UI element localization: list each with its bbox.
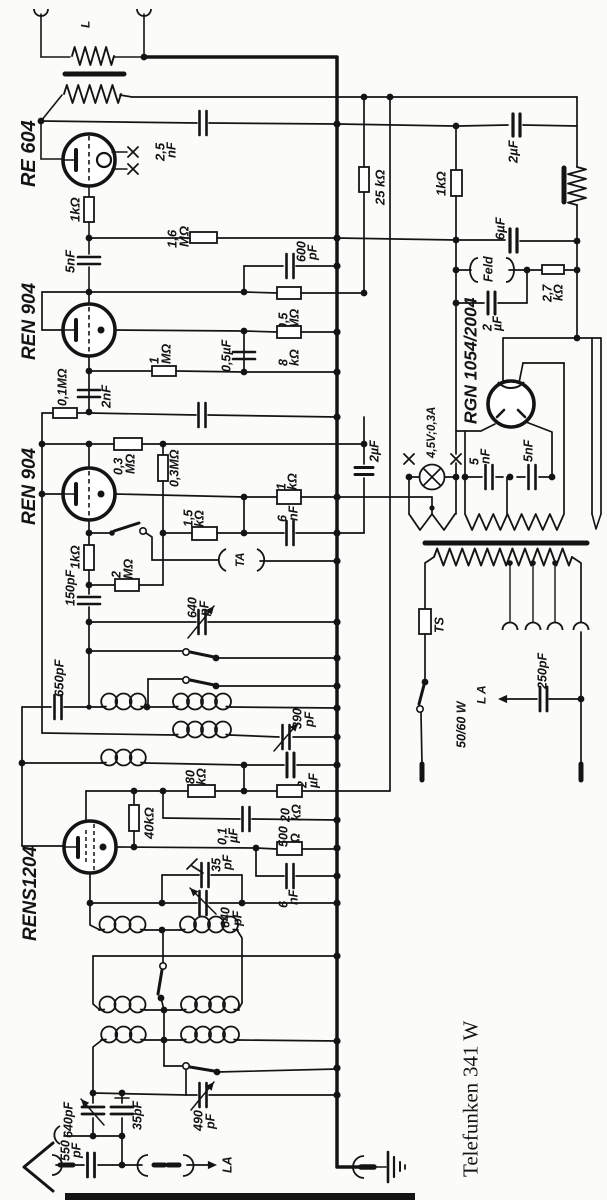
capacitor 640pF (antenna) [92, 1093, 94, 1103]
svg-text:25 kΩ: 25 kΩ [373, 170, 388, 206]
wave switch row A [88, 622, 90, 651]
resistor 25k [363, 97, 365, 167]
svg-text:MΩ: MΩ [177, 226, 192, 247]
speaker terminal hook 1 [34, 9, 48, 16]
wire cathode line [115, 330, 244, 331]
resistor 500 [256, 848, 277, 849]
wire grid-leak line py444 [41, 413, 43, 444]
capacitor 2uF (output) [459, 125, 508, 126]
wire - main chassis/ground bus [144, 57, 359, 1167]
filament winding HV [465, 514, 564, 530]
wire [455, 241, 457, 270]
svg-text:2nF: 2nF [99, 384, 114, 409]
svg-text:150pF: 150pF [64, 570, 78, 606]
svg-text:TS: TS [433, 616, 447, 633]
svg-text:REN 904: REN 904 [19, 447, 40, 525]
svg-text:2µF: 2µF [368, 440, 382, 463]
resistor 80k [188, 785, 215, 797]
capacitor 5nF pair [465, 476, 482, 478]
svg-text:pF: pF [221, 854, 235, 871]
wire anode stub 2 [88, 444, 90, 468]
svg-text:L A: L A [474, 685, 488, 704]
capacitor 2uF (AVC) [244, 764, 284, 766]
resistor 0,3M (top) [114, 438, 142, 450]
svg-text:1kΩ: 1kΩ [68, 197, 83, 222]
svg-text:341 W: 341 W [459, 1021, 483, 1077]
wave switch row B [147, 679, 149, 707]
svg-text:650pF: 650pF [52, 658, 67, 697]
antenna coil row (py1040) [93, 1040, 102, 1093]
ground symbol [353, 1156, 364, 1178]
mains pin right [579, 764, 584, 780]
svg-text:µF: µF [227, 828, 241, 844]
svg-text:pF: pF [70, 1142, 84, 1159]
wire lamp tap to bus [337, 496, 432, 498]
svg-text:0,3MΩ: 0,3MΩ [168, 449, 182, 487]
resistor 0,1M [77, 412, 89, 414]
tube REN904 (1) [63, 304, 115, 356]
wire [576, 205, 578, 241]
svg-text:pF: pF [303, 711, 317, 728]
resistor 1k (cathode 2) [88, 533, 90, 545]
pickup jack TA [219, 549, 226, 571]
svg-text:kΩ: kΩ [195, 768, 209, 785]
resistor 1,5k [163, 532, 192, 534]
RE604 heater leads [112, 151, 127, 153]
wire py124 right of bus [337, 124, 453, 126]
power transformer primary [434, 549, 572, 566]
loudspeaker magnet bar [562, 168, 567, 202]
mains switch [419, 685, 424, 704]
wire speaker right drop [576, 97, 578, 167]
svg-text:pF: pF [198, 600, 212, 617]
IF coil pair (row 1) [89, 706, 102, 708]
capacitor 5nF (RE604 coupling) [78, 256, 100, 259]
wire speaker to winding [41, 56, 70, 58]
wire px244 [243, 497, 245, 533]
capacitor 0,1uF [160, 788, 167, 795]
output transformer core [65, 72, 124, 77]
svg-text:kΩ: kΩ [290, 804, 304, 821]
svg-text:kΩ: kΩ [288, 349, 302, 366]
tube RENS1204 [64, 821, 116, 873]
speaker terminal hook 2 [137, 9, 151, 16]
loudspeaker voice coil [568, 167, 586, 205]
svg-text:nF: nF [479, 448, 493, 464]
resistor 1k (py497) [244, 496, 277, 498]
svg-text:MΩ: MΩ [160, 344, 174, 364]
band switch (antenna) [162, 930, 164, 962]
svg-text:Ω: Ω [289, 833, 303, 844]
capacitor 6uF line py240 [337, 238, 456, 240]
RGN filament leads [456, 424, 495, 431]
capacitor 6nF (2) [255, 848, 257, 876]
wire mains left + fuse TS [425, 557, 434, 609]
dial winding [408, 477, 410, 514]
wire py791 screen feed [86, 790, 188, 792]
svg-text:MΩ: MΩ [124, 454, 138, 474]
scan edge band [65, 1193, 415, 1200]
voltage taps [507, 560, 513, 566]
svg-text:0,1MΩ: 0,1MΩ [56, 368, 70, 406]
resistor 1k (RE604 cathode) [88, 186, 90, 197]
resistor 1M [88, 356, 90, 371]
capacitor 600pF [243, 266, 245, 292]
svg-text:L: L [78, 21, 92, 28]
svg-text:nF: nF [164, 141, 179, 158]
resistor 2,7k [527, 269, 542, 271]
wire grid2 entry [85, 791, 87, 822]
svg-text:REN 904: REN 904 [19, 282, 40, 360]
capacitor 390pF trimmer [281, 725, 284, 749]
capacitor 640pF trimmer (py622) [89, 621, 196, 623]
svg-text:TA: TA [235, 553, 247, 567]
capacitor 490pF trimmer [185, 1070, 187, 1095]
svg-text:LA: LA [221, 1156, 235, 1173]
coil row 2 (py735) [42, 733, 174, 735]
svg-text:5nF: 5nF [522, 439, 536, 462]
svg-text:pF: pF [204, 1113, 218, 1130]
wire px163 + resistor 0,3M (vert) [162, 444, 164, 455]
wire anode stub [88, 292, 90, 304]
wire mains right [572, 557, 581, 622]
svg-text:640pF: 640pF [62, 1102, 76, 1138]
antenna coil row (py1010) [93, 956, 100, 1010]
wire py533 to 2uF [337, 532, 364, 534]
wire px244 (765-791) [243, 765, 245, 791]
output transformer primary winding [64, 85, 121, 103]
resistor 2M [89, 584, 115, 586]
resistor 1k (right, py170) [455, 126, 457, 170]
svg-text:Telefunken: Telefunken [459, 1082, 483, 1177]
antenna coil row (py930) [90, 903, 100, 930]
tube RGN1054 [488, 381, 534, 427]
wire grid to tube [41, 292, 43, 330]
wire cathode RENS [116, 847, 256, 848]
svg-text:kΩ: kΩ [193, 510, 207, 527]
grid switch (pickup) [88, 520, 90, 533]
capacitor 2nF [88, 371, 90, 411]
capacitor 6nF [244, 532, 284, 534]
capacitor 35pF (antenna) [121, 1093, 123, 1103]
svg-text:50/60 W: 50/60 W [455, 700, 469, 748]
pilot lamp 4,5V 0,3A [409, 476, 455, 478]
capacitor 0,5uF [243, 331, 245, 372]
resistor 0,5M [244, 292, 277, 293]
wire grid feed RE604 [38, 118, 45, 125]
field coil Feld [456, 269, 471, 271]
svg-text:Feld: Feld [482, 256, 496, 282]
svg-text:5nF: 5nF [63, 249, 78, 273]
capacitor 640pF trimmer (py903) [89, 873, 91, 903]
resistor 8k [244, 331, 277, 332]
capacitor (py415 line) [89, 413, 196, 415]
wire B+ rail px390 [389, 97, 391, 791]
svg-text:nF: nF [287, 505, 301, 521]
wire primary to grid node [41, 95, 62, 121]
resistor 1,6M [89, 237, 190, 239]
power transformer core [425, 541, 587, 546]
svg-text:µF: µF [491, 316, 505, 332]
wire B+ line py97 [120, 95, 577, 97]
output jack LA [122, 1164, 142, 1166]
antenna symbol [24, 1143, 53, 1191]
capacitor 550pF [56, 1164, 60, 1166]
svg-text:4,5V;0,3A: 4,5V;0,3A [426, 407, 438, 459]
svg-text:RE 604: RE 604 [18, 120, 40, 187]
svg-text:RENS1204: RENS1204 [20, 846, 41, 941]
tube RE604 [63, 134, 115, 186]
svg-text:µF: µF [307, 773, 321, 789]
capacitor 250pF [549, 698, 578, 700]
wire px42 down [41, 444, 43, 494]
wire px22 down [21, 707, 23, 846]
antenna switch [163, 1040, 165, 1066]
svg-text:RGN 1054/2004: RGN 1054/2004 [460, 297, 480, 424]
capacitor 650pF [88, 651, 90, 704]
wire py1136 [64, 1135, 122, 1137]
svg-text:1kΩ: 1kΩ [434, 171, 449, 196]
wire grid RENS [22, 845, 64, 847]
svg-text:40kΩ: 40kΩ [142, 807, 157, 840]
capacitor 150pF [88, 585, 90, 594]
svg-text:6µF: 6µF [493, 216, 508, 240]
resistor 40k [131, 788, 138, 795]
svg-text:kΩ: kΩ [552, 284, 566, 301]
RGN anode wires top [502, 338, 504, 382]
wire grid line py292 [42, 291, 89, 293]
svg-text:kΩ: kΩ [286, 473, 300, 490]
output transformer secondary winding [72, 47, 114, 65]
wire px164 [163, 1010, 165, 1040]
capacitor 2uF (pickup) px364 [363, 417, 365, 444]
svg-text:pF: pF [306, 244, 320, 261]
wire cathode line 2 [115, 494, 244, 497]
capacitor 2,5nF line py121 [41, 121, 197, 123]
svg-text:1kΩ: 1kΩ [69, 545, 83, 569]
capacitor 35pF (parallel) [161, 875, 163, 903]
svg-text:250pF: 250pF [536, 653, 550, 690]
tube REN904 (2) [63, 468, 115, 520]
resistor 20k [244, 790, 277, 792]
svg-text:35pF: 35pF [131, 1100, 145, 1130]
wire [114, 56, 144, 58]
svg-text:0,5µF: 0,5µF [220, 339, 234, 372]
wire grid stub [42, 493, 64, 495]
mains pin left [420, 764, 425, 780]
svg-text:2µF: 2µF [506, 139, 521, 164]
wire py956 [93, 955, 337, 957]
coil row 3 (py763) [22, 762, 102, 764]
svg-text:MΩ: MΩ [122, 559, 136, 579]
capacitor 2uF (field) [455, 270, 457, 303]
